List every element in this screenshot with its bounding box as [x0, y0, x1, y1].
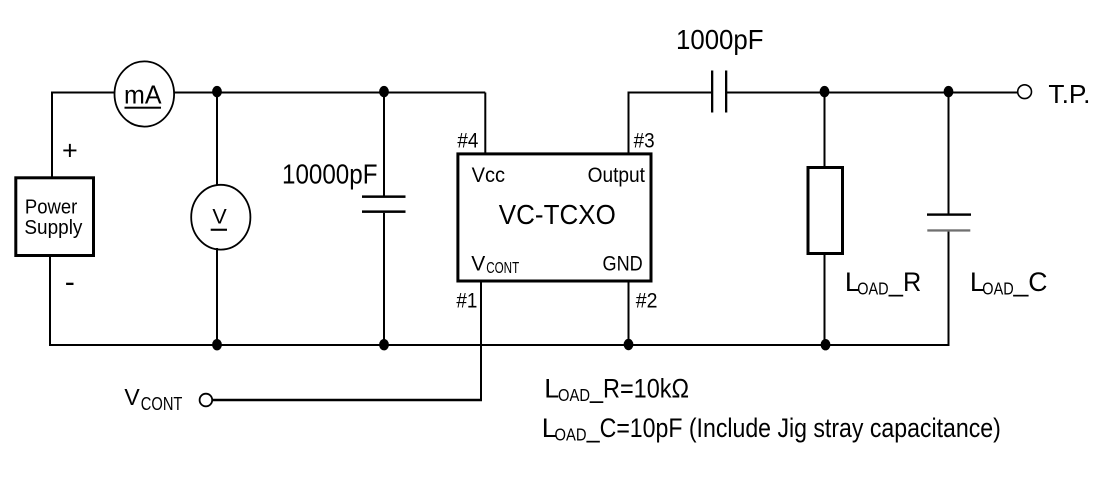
capacitor LOAD_C [927, 213, 971, 231]
wire ammeter to pin4 [174, 92, 485, 94]
wire power supply - terminal down to bus [49, 257, 51, 346]
svg-text:#1: #1 [456, 288, 477, 312]
wire pin2 down to bus [628, 282, 630, 345]
wire pin3 vertical [628, 93, 630, 155]
svg-text:Output: Output [588, 164, 646, 187]
svg-text:Vcc: Vcc [472, 164, 505, 187]
wire pin1 down through bus to vcont line [480, 282, 482, 401]
wire voltmeter down to bus [216, 248, 218, 346]
svg-text:#4: #4 [457, 129, 478, 153]
node junction dot [379, 339, 389, 350]
node junction dot [624, 339, 634, 350]
wire top-left horizontal to ammeter [51, 92, 115, 94]
wire junction down to load resistor [824, 93, 826, 168]
wire junction down to voltmeter [216, 93, 218, 187]
node junction dot [821, 339, 831, 350]
svg-text:CONT: CONT [141, 394, 183, 414]
svg-text:+: + [62, 135, 78, 165]
ammeter mA [115, 61, 175, 126]
wire vcont terminal to pin1 [213, 399, 483, 401]
svg-text:10000pF: 10000pF [282, 159, 378, 190]
svg-text:OAD: OAD [558, 385, 590, 405]
svg-text:V: V [124, 384, 140, 410]
svg-text:Power: Power [25, 196, 78, 218]
wire pin3 to capacitor C2 [628, 92, 713, 94]
svg-text:_C: _C [1013, 267, 1048, 297]
svg-text:#3: #3 [634, 129, 655, 153]
svg-text:#2: #2 [636, 288, 658, 312]
label LOAD_C [970, 267, 1048, 298]
svg-text:Supply: Supply [24, 217, 82, 239]
node junction dot [944, 86, 954, 97]
power supply PS [16, 178, 94, 256]
terminal VCONT circle [200, 394, 213, 407]
svg-text:_R=10kΩ: _R=10kΩ [589, 374, 689, 404]
wire from power supply + terminal up [51, 93, 53, 178]
svg-text:_C=10pF (Include Jig stray cap: _C=10pF (Include Jig stray capacitance) [586, 413, 1001, 443]
svg-text:1000pF: 1000pF [676, 24, 764, 55]
node junction dot [820, 86, 830, 97]
svg-text:mA: mA [124, 79, 162, 109]
label VCONT [124, 384, 182, 414]
ground bus wire [50, 344, 950, 346]
node junction dot [212, 86, 222, 97]
svg-text:OAD: OAD [857, 278, 888, 298]
op module U1 VC-TCXO [458, 154, 651, 281]
svg-text:V: V [471, 253, 485, 276]
svg-text:T.P.: T.P. [1048, 81, 1090, 109]
test point terminal T.P. [1018, 81, 1091, 109]
svg-text:_R: _R [888, 267, 921, 297]
svg-text:GND: GND [603, 253, 643, 276]
minus label [66, 283, 73, 285]
wire junction down to load capacitor [948, 93, 950, 215]
note line 2 LOAD_C value [542, 413, 1001, 444]
wire capacitor C1 down to bus [383, 213, 385, 346]
wire load resistor down to bus [824, 254, 826, 347]
svg-text:V: V [212, 204, 227, 228]
wire load capacitor down to bus [948, 232, 950, 346]
resistor LOAD_R [808, 168, 843, 254]
wire capacitor C2 to test point [727, 92, 1018, 94]
svg-text:OAD: OAD [982, 278, 1013, 298]
svg-text:CONT: CONT [486, 260, 519, 277]
capacitor C2 1000pF [676, 24, 764, 113]
capacitor C1 10000pF [282, 159, 406, 213]
wire junction down to capacitor C1 [383, 93, 385, 197]
label LOAD_R [845, 267, 921, 298]
node junction dot [212, 339, 222, 350]
node junction dot [379, 86, 389, 97]
note line 1 LOAD_R value [544, 374, 689, 405]
svg-text:OAD: OAD [555, 424, 587, 444]
wire pin4 vertical [484, 93, 486, 155]
voltmeter V [191, 185, 250, 250]
svg-text:VC-TCXO: VC-TCXO [499, 199, 616, 230]
